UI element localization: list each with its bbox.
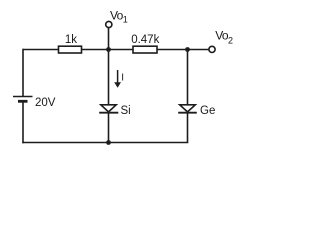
svg-text:0.47k: 0.47k (131, 34, 159, 46)
svg-text:Si: Si (121, 105, 131, 117)
svg-text:Vo: Vo (215, 28, 229, 42)
svg-text:I: I (121, 72, 124, 83)
svg-text:Ge: Ge (200, 105, 215, 117)
svg-text:1: 1 (123, 15, 128, 25)
svg-text:2: 2 (228, 36, 233, 46)
svg-text:1k: 1k (65, 34, 77, 46)
svg-text:20V: 20V (35, 97, 56, 109)
svg-text:Vo: Vo (110, 8, 124, 22)
